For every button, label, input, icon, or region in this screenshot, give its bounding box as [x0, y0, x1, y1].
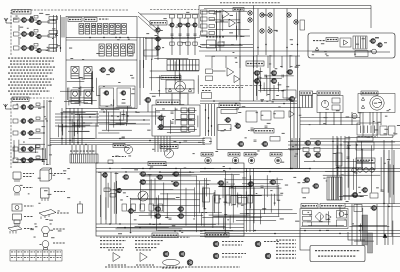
speaker terminal pins — [303, 96, 312, 108]
text sprinkle bottom right — [302, 137, 390, 202]
AM transistor Q31 — [20, 105, 26, 110]
junction dots pass 2 — [61, 37, 389, 234]
capacitor CC4 — [194, 34, 197, 35]
bottom footnote line — [105, 266, 240, 268]
op-amp remote — [344, 40, 348, 45]
transistor Q909 — [351, 192, 358, 197]
legend pictogram flat pack — [8, 226, 22, 234]
IF transformer T32 — [84, 90, 92, 104]
wire STK drops — [212, 56, 296, 68]
resistor R305 box — [49, 45, 58, 48]
transistor Q704 — [270, 79, 277, 84]
op-amp power control — [326, 214, 331, 220]
resistor vertical R163 — [149, 204, 154, 211]
wire power ampl top bus — [200, 100, 297, 102]
label POWER SWITCH — [161, 76, 181, 80]
text left note a — [100, 240, 126, 242]
resistor vertical R173 — [248, 195, 253, 203]
label POWER CONTROL — [320, 204, 345, 209]
wire top link row — [140, 13, 199, 15]
wire bottom bus full — [200, 169, 310, 172]
text remote caption — [313, 40, 325, 42]
potentiometer VR502 — [248, 18, 252, 22]
IF transformer T24 — [121, 44, 126, 56]
wire right bus 2 — [345, 204, 400, 207]
section box AM tuner (dashed) — [11, 98, 54, 168]
wire diagonal 2 — [138, 16, 158, 34]
resistor box strip — [203, 188, 210, 202]
resistor vertical R164 — [158, 204, 163, 211]
wire mesh center top — [149, 58, 199, 98]
resistor box R151 — [108, 160, 113, 164]
resistor box R153 — [110, 194, 116, 198]
note box bottom right — [310, 246, 365, 262]
input resistor box R53 — [201, 24, 208, 28]
wire stereo chain — [157, 25, 159, 56]
relay box RY3 — [337, 220, 347, 227]
text legend caption 4 — [222, 241, 244, 243]
wire to note box — [300, 229, 310, 251]
capacitor C904 — [347, 157, 350, 158]
text sprinkle remote box — [312, 37, 387, 56]
legend IC ellipse — [163, 259, 180, 265]
transistor Q902 — [261, 141, 268, 146]
resistor R205 box — [49, 31, 58, 34]
capacitor C401 — [171, 112, 174, 113]
label AUX — [228, 153, 240, 157]
text eq caption — [203, 87, 243, 89]
input resistor box R57 — [209, 25, 215, 28]
transistor Q155 — [172, 172, 179, 177]
legend pictogram TO-220 — [13, 214, 22, 227]
label SPEAKER — [300, 91, 313, 95]
resistor box R901 — [303, 148, 309, 152]
capacitor C802 — [265, 126, 268, 127]
AM transistor Q32 — [20, 119, 26, 124]
wire center right verticals — [333, 136, 349, 200]
wire AM row 3 — [34, 132, 45, 134]
capacitor CC3 — [187, 34, 190, 35]
wire row 2 — [27, 33, 38, 35]
input resistor box R58 — [209, 32, 215, 35]
transistor Q143 — [154, 46, 160, 50]
AC outlet pins — [361, 126, 375, 134]
resistor box RC2 — [178, 15, 183, 19]
transistor remote Q602 — [376, 43, 382, 47]
output transistor big Q157 — [138, 191, 148, 201]
transistor remote Q601 — [369, 39, 375, 44]
legend electrolytic right — [78, 201, 83, 213]
text legend opamp1 — [108, 249, 124, 251]
transistor Q401 — [157, 116, 163, 121]
transistor Q154 — [156, 175, 163, 180]
IF transformer T15 — [103, 24, 108, 35]
capacitor C152 — [169, 218, 172, 219]
text legend row a — [135, 240, 163, 242]
wire column 2 — [179, 18, 181, 55]
resistor box R520 — [218, 42, 224, 46]
transistor Q141 — [154, 28, 160, 32]
resistor network box — [283, 90, 296, 98]
wire eq link — [213, 70, 226, 72]
wire row 1 out — [41, 21, 50, 23]
ceramic filter CF2 — [84, 67, 92, 79]
IC block uPC1161 — [100, 88, 114, 106]
transistor Q151 — [122, 175, 129, 180]
transistor Q907 — [303, 178, 310, 183]
IF transformer T21 — [99, 44, 104, 56]
wire mesh IF left lower — [60, 71, 97, 106]
component box relay — [356, 142, 374, 150]
op-amp U502 — [229, 19, 235, 27]
label EQUALIZER AMPL — [152, 233, 178, 238]
AC plug box — [380, 126, 387, 135]
resistor box RC5 — [170, 42, 174, 45]
capacitor C702 — [282, 75, 283, 78]
wire IF bus 3 — [66, 59, 137, 61]
IF transformer T25 — [128, 44, 133, 56]
IF transformer T13 — [91, 24, 96, 35]
transistor Q906 — [314, 153, 321, 158]
legend transistor 7 — [265, 253, 271, 259]
wire mesh bottom right — [304, 137, 395, 199]
potentiometer VR501 volume — [248, 11, 252, 15]
wire far right long verticals — [384, 140, 392, 236]
text sprinkle phono amp — [201, 177, 300, 222]
wire center divider — [253, 6, 255, 56]
wire control amp inner top — [204, 8, 371, 10]
wire dial lamp drops — [172, 93, 188, 105]
text tone caption — [206, 36, 224, 38]
wire row 2 out — [41, 35, 50, 37]
terminal grid tape monitor — [181, 108, 195, 131]
potentiometer VR503 bass — [260, 13, 264, 17]
wire AM row 4 — [34, 148, 45, 150]
wire mesh pre drivers — [256, 67, 293, 99]
input resistor box R52 — [201, 17, 208, 21]
speaker terminal box — [300, 96, 313, 108]
wire control amp bottom bus — [199, 50, 371, 52]
capacitor C303 — [34, 44, 38, 47]
wire control amp mid bus — [200, 45, 253, 48]
transistor Q703 — [270, 71, 277, 76]
wire row 3 out — [41, 49, 50, 51]
legend pictogram transistor small 1 — [13, 172, 21, 182]
wire mesh main ampl — [101, 168, 240, 233]
transistor Q702 — [253, 79, 260, 84]
legend pictogram flat module — [39, 210, 56, 220]
label drive — [218, 125, 231, 131]
text legend caption 5 — [222, 253, 246, 255]
transistor Q903 — [304, 141, 311, 146]
text legend 6 — [54, 173, 66, 175]
capacitor C402 — [171, 122, 174, 123]
wire bottom right verticals — [352, 204, 388, 245]
wire tone bus — [199, 35, 250, 37]
wire bottom bus extend — [244, 169, 400, 172]
label SIGNAL METER — [160, 145, 178, 149]
text sprinkle main amp — [98, 165, 246, 234]
input resistor box R55 — [209, 11, 215, 14]
wire divider x140 b — [139, 68, 141, 105]
wire to note box 2 — [348, 232, 365, 240]
transistor Q142 — [154, 37, 160, 41]
wire right bundle — [291, 136, 298, 168]
transistor Q208 — [120, 91, 126, 95]
transistor Q165 — [217, 181, 224, 186]
resistor box RC3 — [186, 15, 191, 19]
resistor vertical R160 — [122, 204, 127, 211]
text legend caption 6 — [264, 241, 280, 243]
capacitor C801 — [251, 128, 254, 129]
resistor box R903 — [302, 188, 309, 193]
tone network box — [207, 40, 216, 48]
text under main amp — [100, 236, 190, 238]
wire diagonal 1 — [138, 12, 158, 30]
coil L3 box — [14, 46, 20, 50]
label AMPL RELAY — [301, 204, 318, 209]
legend pictogram power transistor — [12, 204, 22, 211]
capacitor C701 — [265, 75, 266, 78]
transistor Q160 — [127, 209, 133, 214]
connector circles row — [352, 168, 374, 172]
potentiometer VR508 — [294, 20, 298, 24]
AM transistor Q33 — [20, 131, 26, 136]
legend pictogram lamp 2 — [42, 241, 49, 250]
shaded connector bar 2 — [368, 233, 373, 253]
resistor box RC1 — [170, 15, 175, 19]
main amp junctions — [109, 168, 180, 232]
text power — [202, 90, 211, 92]
transistor Q701 — [253, 71, 260, 76]
text legend opamp2 caption — [136, 264, 154, 266]
label POWER SUPPLY — [361, 91, 378, 95]
fuse F901 — [352, 113, 357, 118]
ribbon cable ladder — [327, 177, 342, 200]
text sprinkle center — [101, 86, 185, 131]
wire psu drops — [320, 112, 381, 125]
text sprinkle jacks row — [203, 137, 300, 162]
warning triangle transformer — [361, 97, 364, 100]
wire psu bus — [300, 118, 360, 125]
text sprinkle psu right — [309, 93, 400, 134]
wire AM row 1 — [34, 106, 45, 108]
resistor vertical R172 — [237, 195, 242, 203]
label OUT — [270, 153, 282, 157]
text sprinkle STK area — [212, 52, 300, 66]
section box power switch — [317, 96, 343, 113]
FET Q201 — [20, 32, 26, 37]
AM transistor Q32 — [27, 105, 33, 110]
wire mid bundle — [247, 168, 254, 232]
wire control verticals — [217, 10, 221, 51]
text sprinkle power control — [303, 206, 362, 231]
AM transistor Q34 — [20, 147, 26, 152]
transistor Q901 — [237, 141, 244, 146]
electrolytic C902 tall box — [336, 153, 342, 166]
transistor Q205 — [99, 68, 105, 73]
text legend 3 — [24, 205, 34, 207]
wire mesh power control — [301, 205, 344, 226]
AM coil L34 — [13, 147, 18, 151]
wire AM row 5 — [34, 159, 45, 161]
AM transistor Q34 — [27, 131, 33, 136]
legend pictogram IF can 3d — [40, 168, 52, 181]
wire tuning gang verticals — [54, 15, 61, 52]
resistor box R152 — [104, 188, 110, 192]
text legend caption 4b — [222, 244, 242, 246]
text IC designators — [99, 18, 109, 20]
text legend caption 3 — [162, 267, 182, 269]
legend op-amp 1 — [113, 253, 120, 262]
AM transistor Q33 — [27, 119, 33, 124]
text legend row b — [135, 243, 160, 245]
transistor Q162 — [154, 214, 161, 219]
text legend 5 — [24, 228, 34, 230]
label VOLUME — [233, 8, 244, 12]
wire STK section top — [205, 55, 300, 57]
wire pre drops — [257, 55, 290, 68]
text sprinkle stereo area — [146, 12, 201, 48]
transistor Q158 — [101, 173, 107, 178]
resistor vertical R161 — [131, 204, 136, 211]
ceramic filter CF1 — [71, 67, 79, 79]
legend parts text block right — [276, 239, 296, 241]
IC block STK0050 b — [261, 111, 271, 120]
transistor QC2 — [176, 23, 182, 27]
wire mesh left mid band — [58, 112, 98, 143]
capacitor C161 — [231, 186, 234, 187]
text legend row c — [135, 247, 157, 249]
label TUNING METER — [113, 144, 125, 148]
label PHONO — [201, 153, 213, 157]
transistor Q207 — [103, 91, 109, 95]
transistor Q210 — [144, 97, 151, 102]
text legend caption 5b — [222, 256, 242, 258]
legend transistor 4 — [213, 241, 219, 247]
wire IF bus 2 — [66, 39, 137, 41]
resistor box thermal — [332, 98, 340, 103]
text legend 7 — [54, 191, 65, 193]
AM capacitor C33 — [36, 129, 40, 132]
wire IF bus top — [66, 37, 200, 39]
wire main bus band left — [50, 139, 205, 145]
resistor box RC4 — [193, 15, 198, 19]
op-amp U501 — [222, 10, 229, 19]
bus junction dots global — [89, 37, 311, 235]
IF transformer T18 — [122, 24, 127, 35]
pa left junctions — [205, 109, 212, 131]
wire right bundle b — [291, 101, 298, 136]
capacitor CC1 — [171, 34, 174, 35]
diode bridge — [315, 212, 324, 221]
label box safety — [357, 137, 373, 142]
component box mpx out — [144, 50, 157, 56]
coil L2 box — [14, 32, 20, 36]
capacitor C162 — [261, 186, 264, 187]
notes text block — [8, 57, 54, 59]
wire dashed link — [150, 9, 199, 11]
transistor QC4 — [191, 23, 197, 27]
potentiometer VR505 balance — [260, 29, 264, 33]
wire bus c4 — [99, 123, 150, 125]
wire AM row 2 — [34, 120, 45, 122]
varicap D201 — [28, 32, 34, 37]
op-amp U602 — [234, 75, 240, 82]
FET Q301 — [20, 46, 26, 51]
wire mesh phono ampl — [202, 175, 283, 217]
power switch circle — [321, 100, 328, 107]
text sprinkle meters band — [115, 137, 201, 157]
terminal grid top right — [167, 60, 199, 71]
wire mpx verticals 2 — [146, 38, 158, 61]
wire pre drops 2 — [257, 85, 274, 100]
transistor Q801 — [224, 118, 230, 123]
input resistor box R54 — [201, 31, 208, 35]
text legend opamp2 — [136, 249, 152, 251]
wire coil link 2 — [18, 39, 20, 45]
parts table — [10, 250, 62, 261]
IF transformer T16 — [110, 24, 115, 35]
warning triangle transformer 2 — [361, 105, 364, 108]
IF transformer T23 — [113, 44, 118, 56]
wire coil link 1 — [18, 25, 20, 31]
text legend 4 — [24, 216, 33, 218]
text legend 2 — [23, 187, 33, 189]
text AC caption — [358, 136, 378, 138]
wire left mid verticals — [62, 108, 82, 145]
wire MPX out verticals — [140, 38, 144, 89]
connector strip hatched — [70, 154, 98, 163]
wire bus c3 — [99, 119, 150, 121]
power transformer T901 — [370, 96, 384, 110]
capacitor C151 — [149, 214, 152, 215]
transistor Q802 — [234, 124, 240, 129]
transistor Q910 — [361, 188, 367, 193]
section box FM front end (dashed) — [11, 10, 128, 55]
wire mesh AM lower — [12, 139, 47, 163]
wire control amp verticals — [240, 9, 298, 56]
transistor Q706 — [288, 96, 295, 101]
transistor Q152 — [139, 172, 146, 177]
transistor Q911 — [370, 206, 376, 211]
AC outlet box — [357, 123, 378, 135]
text legend 8 — [57, 212, 69, 214]
resistor box power — [274, 111, 284, 118]
legend transistor 3 — [187, 260, 193, 266]
op-amp U601 — [227, 68, 234, 76]
photo transistor — [372, 49, 377, 54]
wire main amp bottom bus — [96, 224, 244, 231]
potentiometer VR504 treble — [268, 13, 272, 17]
legend transistor 2 — [179, 251, 185, 257]
IC block STK0050 — [246, 111, 257, 122]
text legend opamp1 caption — [108, 264, 126, 266]
jack J2 aux — [232, 157, 238, 163]
wire mesh bottom center — [202, 210, 297, 230]
AM coil L33 — [13, 131, 18, 135]
wire AM verticals — [44, 100, 50, 165]
transistor Q705 — [286, 70, 293, 75]
legend transistor 5 — [213, 253, 219, 259]
wire bottom long bus — [200, 231, 400, 237]
wire column 1 — [171, 18, 173, 55]
section box tape monitor — [152, 105, 200, 136]
transistor Q908 — [312, 184, 319, 189]
AM capacitor C31 — [36, 103, 40, 106]
IF transformer T12 — [85, 24, 90, 35]
AM capacitor C32 — [36, 117, 40, 120]
